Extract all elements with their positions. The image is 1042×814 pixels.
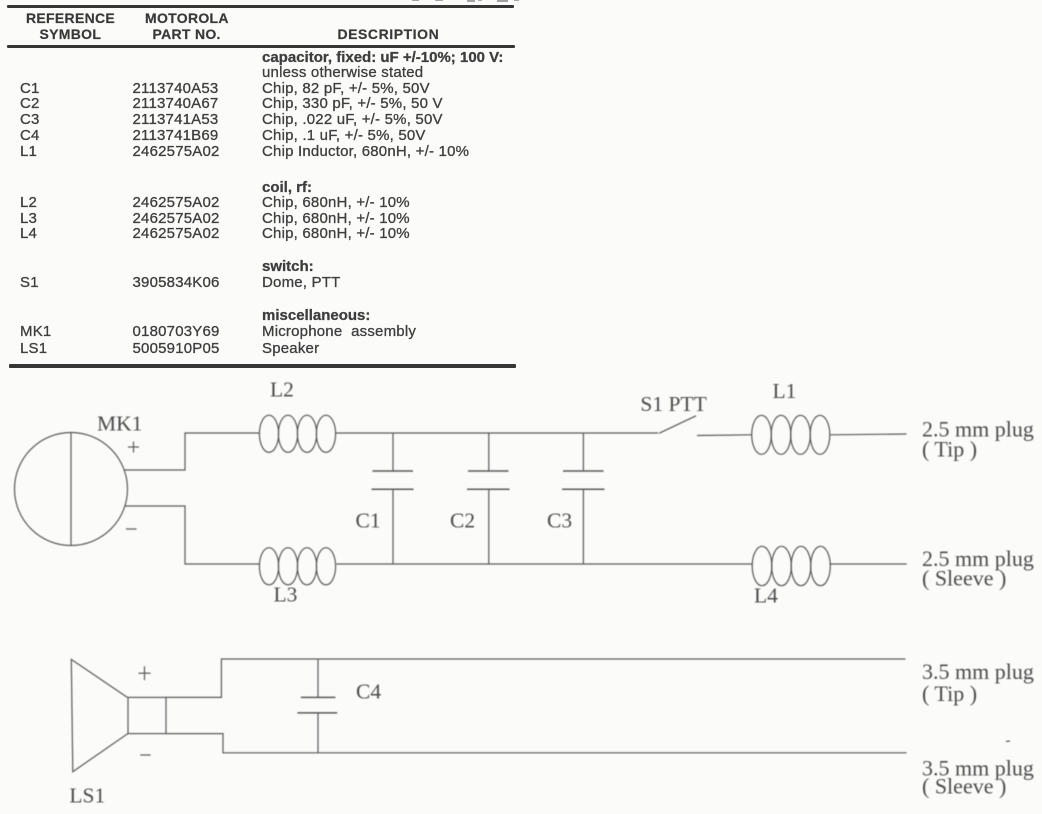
svg-text:( Tip ): ( Tip ) xyxy=(922,437,977,462)
svg-text:( Sleeve ): ( Sleeve ) xyxy=(922,774,1006,799)
svg-text:L2: L2 xyxy=(270,378,294,402)
svg-text:S1 PTT: S1 PTT xyxy=(640,392,706,416)
svg-text:C4: C4 xyxy=(356,680,381,704)
svg-text:L1: L1 xyxy=(773,379,797,403)
svg-text:C1: C1 xyxy=(356,509,381,533)
svg-text:L3: L3 xyxy=(274,583,298,607)
svg-text:( Tip ): ( Tip ) xyxy=(922,681,977,706)
svg-text:L4: L4 xyxy=(754,584,778,608)
svg-text:MK1: MK1 xyxy=(97,412,142,436)
svg-text:C3: C3 xyxy=(547,509,572,533)
svg-text:LS1: LS1 xyxy=(69,784,105,808)
svg-text:C2: C2 xyxy=(450,509,475,533)
svg-text:( Sleeve ): ( Sleeve ) xyxy=(922,566,1006,591)
